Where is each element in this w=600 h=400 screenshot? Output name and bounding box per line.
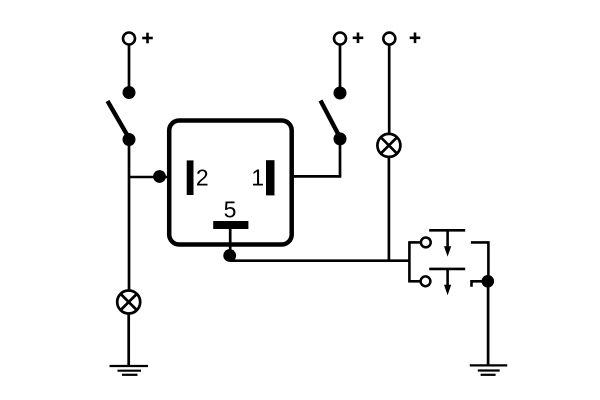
pushbutton SB2 moving contact <box>429 268 465 271</box>
plus label T2 <box>353 33 364 44</box>
wire lamp E2 to feed line <box>388 157 391 261</box>
svg-text:1: 1 <box>251 165 264 191</box>
wire node D to pushbutton feed <box>230 259 409 262</box>
pin 5 contact bar <box>213 221 248 229</box>
svg-text:2: 2 <box>196 165 209 191</box>
node D (pin 5 junction) <box>223 249 236 262</box>
pushbutton SB1 moving contact <box>429 229 465 232</box>
link to pushbutton SB2 <box>409 280 420 283</box>
relay U1 case <box>169 121 292 245</box>
wire to relay pin 1 <box>293 175 342 178</box>
pushbutton SB2 fixed contact <box>472 281 484 286</box>
terminal T1 (+) <box>123 33 135 45</box>
ground G1 <box>110 366 149 375</box>
pin 2 contact bar <box>187 160 194 195</box>
wire T3 to lamp E2 <box>388 45 391 135</box>
wire node E to ground G2 <box>487 281 490 365</box>
terminal T2 (+) <box>334 33 346 45</box>
wire branch to relay pin 2 <box>129 176 168 179</box>
pushbutton SB1 actuation arrow <box>444 230 451 256</box>
link to pushbutton SB1 <box>409 241 420 244</box>
wire T2 to switch S2 <box>339 45 342 93</box>
lamp E1 <box>117 291 140 314</box>
switch S2 blade <box>321 101 341 139</box>
node S2 bottom <box>334 132 347 145</box>
ground G2 <box>470 365 507 374</box>
svg-text:5: 5 <box>224 197 237 223</box>
pushbutton SB2 pole <box>421 276 431 286</box>
pushbutton SB1 pole <box>421 238 431 248</box>
node S1 bottom <box>123 133 136 146</box>
wire lamp E1 to ground G1 <box>127 314 130 366</box>
node pin 2 <box>153 170 166 183</box>
wire T1 to switch S1 <box>128 45 131 93</box>
node S2 top <box>334 87 347 100</box>
pin 1 contact bar <box>266 160 275 195</box>
wire S1 down to lamp E1 <box>128 140 131 291</box>
wire S2 down <box>339 139 342 177</box>
lamp E2 <box>377 134 400 157</box>
terminal T3 (+) <box>383 33 395 45</box>
plus label T1 <box>142 33 153 44</box>
wire pin 5 to node D <box>229 229 232 256</box>
node S1 top <box>123 86 136 99</box>
plus label T3 <box>410 33 421 44</box>
pushbutton bracket <box>408 241 411 282</box>
node E (ground junction) <box>482 275 495 288</box>
pushbutton SB1 fixed contact <box>471 242 489 281</box>
switch S1 blade <box>108 101 130 139</box>
pushbutton SB2 actuation arrow <box>444 269 451 295</box>
